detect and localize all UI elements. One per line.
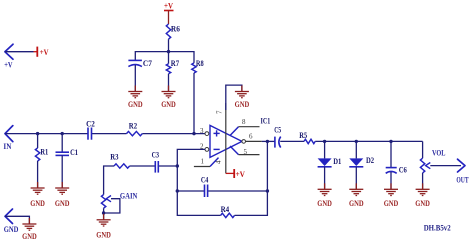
ground (R1) (31, 182, 45, 194)
node C4/R4 right (266, 189, 269, 192)
svg-text:5: 5 (244, 148, 248, 156)
pin 5 (gain) (230, 146, 239, 155)
svg-text:R2: R2 (129, 122, 137, 131)
power port +V (bar) (34, 47, 38, 57)
ground (D2) (349, 183, 363, 195)
capacitor C3 (155, 161, 158, 173)
wire pin7 to gnd (226, 85, 242, 110)
wire (5, 216, 29, 224)
potentiometer VOL (R) (420, 158, 424, 173)
pin 1 (gain) (210, 158, 219, 167)
node R1 (36, 132, 39, 135)
svg-text:GND: GND (384, 199, 399, 208)
svg-text:+V: +V (4, 61, 12, 70)
svg-text:GAIN: GAIN (120, 191, 138, 200)
svg-text:C7: C7 (143, 59, 152, 68)
svg-text:C1: C1 (70, 148, 78, 157)
pin 3 input circle (205, 132, 209, 136)
pin 2 input circle (205, 148, 209, 152)
diode D2 (355, 141, 357, 158)
node R6/R7 (167, 50, 170, 53)
wire wiper loop (104, 199, 120, 213)
svg-text:C4: C4 (201, 175, 208, 184)
svg-text:+V: +V (164, 2, 173, 11)
resistor R3 (114, 164, 130, 168)
resistor R1 (37, 134, 39, 148)
diode D1 (324, 141, 326, 158)
svg-text:4: 4 (215, 160, 223, 164)
svg-text:GND: GND (349, 199, 364, 208)
resistor R5 (304, 139, 315, 143)
svg-text:R4: R4 (221, 205, 230, 214)
port arrow +V (top-left power input) (5, 44, 13, 59)
ground (C1) (55, 182, 69, 194)
node C4 junction (176, 189, 179, 192)
svg-text:IN: IN (3, 142, 11, 151)
wire (422, 173, 424, 189)
svg-text:R3: R3 (110, 153, 118, 162)
ground (VOL pot) (416, 183, 430, 195)
resistor R7 (168, 52, 170, 64)
ground (C7) (128, 86, 142, 98)
svg-text:GND: GND (22, 232, 37, 241)
ground (op-amp pin 7) (235, 86, 249, 98)
svg-text:GND: GND (161, 100, 176, 109)
capacitor C5 (polarized) (275, 137, 281, 148)
svg-text:VOL: VOL (432, 149, 446, 158)
svg-text:D1: D1 (333, 157, 341, 166)
svg-text:R6: R6 (171, 25, 180, 34)
svg-text:7: 7 (216, 110, 224, 114)
wire (103, 208, 105, 220)
svg-text:DH.B5v2: DH.B5v2 (424, 223, 451, 232)
wire IN rail (5, 133, 205, 135)
resistor R4 (221, 213, 235, 217)
node C1 (61, 132, 64, 135)
ground (GAIN pot) (97, 214, 111, 226)
ground (C6) (384, 183, 398, 195)
svg-text:IC1: IC1 (261, 116, 271, 125)
resistor R2 (127, 131, 143, 135)
svg-text:GND: GND (317, 199, 332, 208)
svg-text:C3: C3 (152, 150, 159, 159)
svg-text:6: 6 (249, 133, 253, 141)
svg-text:GND: GND (30, 199, 45, 208)
svg-text:GND: GND (235, 100, 250, 109)
svg-text:R7: R7 (171, 59, 179, 68)
svg-text:GND: GND (55, 199, 70, 208)
svg-text:GND: GND (96, 231, 111, 240)
svg-text:R1: R1 (40, 147, 48, 156)
ground (port) (22, 218, 36, 230)
resistor R6 (166, 24, 170, 39)
wire feedback right leg (235, 141, 268, 215)
wire (134, 65, 136, 92)
svg-text:C6: C6 (399, 165, 407, 174)
svg-text:+V: +V (236, 170, 246, 179)
node pin3/R8 (192, 132, 195, 135)
svg-text:+V: +V (40, 48, 49, 57)
svg-text:OUT: OUT (456, 176, 469, 185)
capacitor C7 (polarized) (128, 60, 142, 66)
node C3 junction (176, 164, 179, 167)
wire R3/C3 line (104, 166, 178, 195)
svg-text:GND: GND (128, 100, 143, 109)
wire C4 row (177, 190, 267, 192)
node wiper/bottom (102, 211, 105, 214)
resistor R8 (192, 63, 196, 73)
svg-text:GND: GND (4, 225, 19, 234)
potentiometer GAIN (R) (101, 195, 105, 209)
svg-text:C5: C5 (274, 125, 281, 134)
svg-text:R5: R5 (299, 131, 307, 140)
op-amp IC1 triangle (210, 125, 242, 157)
svg-text:3: 3 (200, 127, 204, 135)
svg-text:R8: R8 (196, 59, 204, 68)
wiper arrow (106, 196, 111, 202)
wire output rail (262, 141, 423, 158)
svg-text:1: 1 (201, 158, 205, 166)
capacitor C4 (205, 185, 208, 198)
wire (430, 165, 461, 167)
port arrow OUT (458, 159, 466, 172)
svg-text:C2: C2 (86, 119, 95, 128)
ground (D1) (318, 183, 332, 195)
capacitor C1 (61, 134, 63, 153)
pin 8 (gain) (230, 127, 239, 136)
capacitor C2 (88, 128, 92, 140)
ground (R7) (162, 86, 176, 98)
port arrow GND (bottom-left) (5, 209, 13, 224)
svg-text:GND: GND (415, 199, 430, 208)
wire pin 2 loop (177, 149, 220, 215)
wire (168, 39, 170, 51)
svg-text:D2: D2 (366, 156, 374, 165)
wire (5, 51, 34, 53)
node output feedback tap (266, 140, 269, 143)
wiper arrow (426, 163, 431, 169)
wire top rail C7-R7-R8 (135, 52, 194, 63)
port arrow IN (5, 126, 13, 142)
capacitor C6 (polarized) (390, 141, 392, 167)
power port +V (op-amp pin 4) (226, 169, 234, 178)
pin 7 / pin 4 vertical (225, 103, 227, 173)
svg-text:8: 8 (242, 118, 246, 126)
pin 6 output circle (242, 140, 246, 144)
